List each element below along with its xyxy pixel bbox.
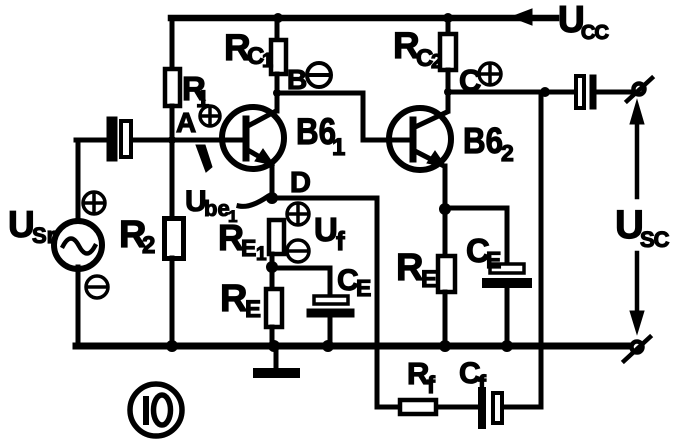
label C_f bbox=[459, 357, 487, 398]
source U_sr circle with sine bbox=[54, 221, 102, 269]
junction top rail / RC2 bbox=[443, 13, 453, 23]
resistor R2 bbox=[165, 219, 184, 259]
capacitor C output bbox=[576, 76, 593, 108]
wire RE2 to bottom rail bbox=[443, 292, 448, 346]
svg-text:E: E bbox=[245, 296, 261, 323]
junction node C bbox=[444, 88, 452, 96]
figure number 10 text bbox=[146, 395, 171, 425]
svg-text:E: E bbox=[421, 266, 437, 293]
label B6_2 bbox=[463, 120, 514, 166]
resistor RE second stage bbox=[438, 256, 455, 292]
junction node A bbox=[168, 136, 176, 144]
wire feedback right vertical from node C bbox=[539, 92, 544, 404]
wire node D to feedback branch bbox=[272, 196, 377, 201]
junction node D bbox=[266, 192, 278, 204]
junction RE1 / RE / CE1 bbox=[266, 261, 278, 273]
junction bottom rail / R2 bbox=[166, 340, 178, 352]
resistor RC1 body bbox=[271, 40, 286, 74]
svg-text:R: R bbox=[220, 278, 247, 320]
junction bottom rail / CE2 bbox=[501, 340, 513, 352]
wire RE1 to junction bbox=[270, 254, 275, 289]
svg-text:1: 1 bbox=[262, 50, 273, 72]
svg-text:U: U bbox=[8, 204, 35, 245]
label U_CC bbox=[558, 0, 608, 44]
svg-text:2: 2 bbox=[501, 140, 514, 166]
wire node B to base of Q2 bbox=[277, 93, 388, 140]
svg-text:D: D bbox=[290, 167, 311, 199]
resistor RE1 bbox=[269, 220, 284, 254]
label R_E second stage bbox=[396, 247, 437, 293]
wire R2 to bottom rail bbox=[170, 258, 175, 346]
wire RC2 top bbox=[446, 18, 451, 34]
wire feedback bottom segments bbox=[377, 405, 541, 410]
svg-text:B6: B6 bbox=[296, 111, 336, 152]
label node D bbox=[290, 167, 311, 199]
svg-text:SC: SC bbox=[640, 227, 670, 252]
label U_be1 bbox=[185, 185, 237, 226]
svg-text:2: 2 bbox=[431, 51, 442, 73]
svg-text:1: 1 bbox=[256, 244, 267, 265]
label C_E1 bbox=[337, 264, 371, 301]
svg-text:B6: B6 bbox=[463, 120, 503, 161]
junction bottom rail / RE bbox=[268, 340, 280, 352]
wire left branch: top rail to R1 bbox=[170, 18, 175, 69]
polarity plus at source bbox=[83, 192, 105, 214]
polarity plus at node A bbox=[200, 106, 220, 126]
wire RC1 to node B / collector Q1 bbox=[275, 74, 280, 111]
transistor Q2 B6_2 bbox=[386, 108, 451, 170]
svg-text:f: f bbox=[427, 372, 436, 399]
wire bottom ground rail bbox=[76, 343, 633, 350]
resistor RE first stage bbox=[266, 289, 282, 327]
svg-text:f: f bbox=[336, 226, 345, 256]
svg-text:R: R bbox=[396, 247, 423, 289]
polarity minus at node B bbox=[307, 63, 331, 87]
wire RC2 to node C / collector Q2 bbox=[446, 70, 451, 111]
wire CE2 to bottom rail bbox=[505, 288, 510, 346]
arrow U_sc lower segment bbox=[630, 253, 644, 334]
svg-text:Sr: Sr bbox=[32, 223, 56, 248]
annotation curve from U_be1 to base wire bbox=[196, 145, 212, 172]
capacitor CE2 electrolytic bbox=[487, 264, 527, 283]
wire source to bottom rail bbox=[76, 267, 81, 345]
transistor Q1 B6_1 bbox=[218, 107, 284, 169]
label U_f bbox=[314, 211, 345, 256]
svg-text:1: 1 bbox=[196, 86, 209, 113]
wire CE1 to bottom rail bbox=[328, 318, 333, 346]
wire R1 to node A bbox=[170, 106, 175, 140]
figure number 10 bbox=[130, 384, 182, 436]
wire emitter Q1 to node D bbox=[270, 164, 275, 198]
ground symbol bbox=[258, 349, 295, 373]
resistor RC2 body bbox=[440, 34, 456, 70]
polarity plus of U_f bbox=[287, 203, 309, 225]
label R_C1 bbox=[224, 27, 273, 72]
wire feedback left vertical bbox=[375, 198, 380, 407]
svg-text:E: E bbox=[356, 275, 371, 301]
output terminal top bbox=[627, 78, 652, 101]
wire node A to base of Q1 bbox=[133, 138, 243, 143]
svg-text:U: U bbox=[314, 211, 338, 248]
label R_C2 bbox=[393, 25, 442, 73]
label U_sr bbox=[8, 204, 56, 248]
wire top supply rail bbox=[171, 15, 556, 22]
label C_E2 bbox=[466, 232, 501, 273]
label node A bbox=[176, 107, 196, 138]
label B6_1 bbox=[296, 111, 345, 161]
wire input cap to source top bbox=[76, 140, 106, 221]
polarity minus below source bbox=[86, 276, 108, 298]
wire output cap to terminal bbox=[597, 90, 634, 95]
label node C bbox=[459, 63, 481, 98]
junction emitter Q2 / CE2 bbox=[439, 203, 451, 215]
output terminal bottom bbox=[624, 337, 650, 361]
svg-text:A: A bbox=[176, 107, 196, 138]
svg-text:B: B bbox=[287, 64, 307, 95]
svg-text:f: f bbox=[478, 371, 487, 398]
arrowhead on supply rail toward U_CC bbox=[511, 9, 532, 25]
polarity minus of U_f bbox=[287, 240, 309, 262]
label R_E1 bbox=[218, 217, 267, 265]
svg-text:E: E bbox=[486, 247, 501, 273]
label R2 bbox=[119, 214, 155, 259]
wire RE to bottom rail bbox=[270, 327, 275, 346]
wire node A to R2 bbox=[170, 140, 175, 220]
arrow U_sc upper segment bbox=[630, 100, 644, 197]
junction C line / feedback bbox=[540, 87, 550, 97]
resistor Rf bbox=[400, 400, 436, 414]
label U_sc bbox=[615, 203, 670, 252]
wire junction to CE1 bbox=[272, 268, 330, 296]
junction bottom rail / CE1 bbox=[322, 340, 334, 352]
polarity plus at node C bbox=[479, 63, 501, 85]
svg-text:2: 2 bbox=[142, 232, 155, 259]
wire node C to output cap bbox=[448, 90, 576, 95]
wire emitter Q2 down bbox=[443, 166, 448, 256]
label node B bbox=[287, 64, 307, 95]
junction top rail / RC1 bbox=[273, 13, 283, 23]
resistor R1 bbox=[165, 69, 180, 106]
label R_f bbox=[407, 356, 436, 399]
annotation curve from U_be1 to emitter wire bbox=[239, 197, 267, 206]
resistor RC1 with wires bbox=[275, 18, 280, 40]
wire emitter junction to CE2 bbox=[445, 208, 507, 264]
svg-text:E: E bbox=[241, 235, 256, 261]
label R1 bbox=[182, 70, 209, 113]
label R_E first stage bbox=[220, 278, 261, 323]
junction node B bbox=[273, 89, 281, 97]
svg-text:CC: CC bbox=[581, 22, 608, 44]
capacitor CE1 electrolytic bbox=[311, 296, 350, 313]
svg-text:C: C bbox=[459, 63, 481, 98]
svg-text:1: 1 bbox=[332, 134, 345, 161]
capacitor Cf bbox=[482, 391, 502, 425]
junction bottom rail / RE2 bbox=[439, 340, 451, 352]
capacitor C input bbox=[112, 121, 131, 157]
